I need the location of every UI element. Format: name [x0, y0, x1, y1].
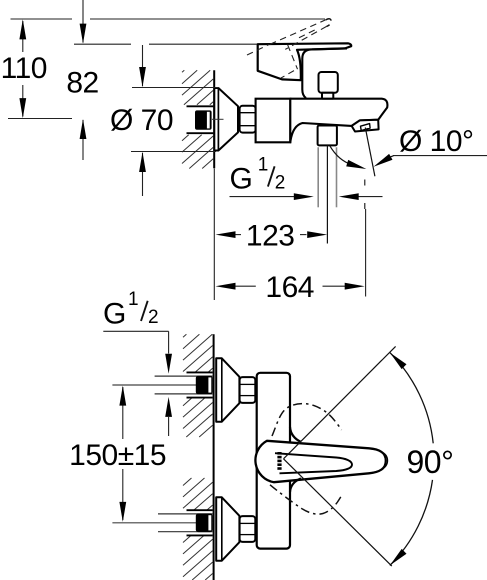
- supply pipe socket in wall (top view): [187, 106, 214, 133]
- wall hatching (bottom view): [183, 334, 213, 580]
- svg-text:150±15: 150±15: [69, 439, 166, 472]
- neck fillet top (body edge to lever): [290, 427, 301, 442]
- hex nut, lower union (bottom view): [240, 516, 256, 542]
- aerator / mousseur at spout end (top view): [352, 120, 379, 132]
- label diameter 10 degrees with leader: [374, 125, 487, 167]
- hose pipe centreline (top view): [326, 146, 328, 244]
- supply pipe socket in wall, lower union (bottom view): [187, 509, 213, 511]
- cartridge dome (top view): [302, 48, 347, 98]
- svg-text:Ø 70: Ø 70: [110, 104, 173, 137]
- faucet connection block (top view): [256, 99, 291, 143]
- svg-text:Ø 10°: Ø 10°: [399, 125, 474, 158]
- svg-text:110: 110: [1, 52, 47, 85]
- arc arrowheads: [390, 353, 407, 370]
- svg-text:164: 164: [265, 271, 314, 304]
- svg-text:G: G: [103, 297, 126, 330]
- hex nut, upper union (bottom view): [240, 377, 256, 403]
- supply pipe outline, upper union: [155, 375, 213, 377]
- supply pipe socket in wall, upper union (bottom view): [187, 371, 213, 373]
- lever handle front view (pointing at viewer): [255, 441, 385, 482]
- hose pipe edge extension lines (top view): [318, 147, 336, 207]
- pipe centreline / 150 extension, upper union: [112, 384, 213, 386]
- union centre tick (top view): [212, 118, 224, 120]
- angle arc from pipe to tilted line (top view): [330, 146, 352, 165]
- pipe fitting (black), upper union: [196, 376, 213, 395]
- dimension 150 plus/minus 15: [69, 386, 166, 522]
- S-union escutcheon cone (top view): [214, 88, 238, 151]
- grip marks on lever (black ticks): [277, 452, 281, 470]
- G 1/2 dimension arrows (bottom view): [165, 331, 172, 436]
- svg-text:90°: 90°: [407, 444, 454, 480]
- dimension 82: [66, 0, 98, 160]
- spout outlet extension line (top view): [365, 209, 367, 297]
- hex nut of S-union (top view): [240, 106, 256, 133]
- raised lever silhouette, dashed upper hump (bottom view): [272, 404, 342, 436]
- extension line y=118.5 (spout axis): [8, 118, 72, 120]
- dimension 123: [216, 220, 328, 253]
- vertical reference dashes below spout (top view): [364, 180, 366, 186]
- escutcheon cone, upper union (bottom view): [216, 358, 239, 421]
- extension line y=19 (top of raised lever): [11, 18, 73, 20]
- lever handle, closed position (top view): [258, 43, 352, 80]
- svg-text:1: 1: [128, 289, 139, 310]
- dimension 110: [1, 19, 47, 118]
- supply pipe outline, lower union: [158, 513, 213, 515]
- lever inner surface outline: [275, 453, 352, 473]
- 90 degree swing arc: [390, 353, 433, 444]
- svg-text:2: 2: [148, 307, 159, 328]
- pipe fitting (black), lower union: [196, 514, 213, 533]
- svg-text:1: 1: [258, 155, 269, 176]
- label G 1/2 (top view) with dimension arrows: [230, 155, 383, 201]
- wall line (top view): [213, 70, 215, 168]
- shower hose connection block (top view): [318, 126, 337, 146]
- dimension 164: [216, 271, 365, 304]
- pipe fitting (black) in wall (top view): [195, 110, 212, 129]
- lever raised position, dashed (top view): [247, 19, 331, 78]
- neck fillet bottom: [290, 478, 301, 492]
- label G 1/2 (bottom view): [103, 289, 169, 331]
- raised lever silhouette, dashed lower hump (bottom view): [270, 485, 343, 514]
- swing range diagonal, lower 45 deg: [284, 459, 392, 566]
- dimension diameter 70: [110, 45, 219, 196]
- wall plane extension line (top view dims): [213, 169, 215, 301]
- wall line (bottom view): [213, 334, 215, 580]
- svg-text:G: G: [230, 163, 253, 196]
- svg-text:82: 82: [66, 66, 98, 99]
- svg-text:123: 123: [246, 220, 295, 253]
- faucet body (bottom view): [257, 373, 290, 549]
- wall hatching (top view): [182, 70, 213, 168]
- pipe centreline / 150 extension, lower union: [112, 522, 213, 524]
- extension line y=44 (top of lever): [74, 43, 131, 45]
- spray angle tilted line (top view): [365, 128, 375, 177]
- escutcheon cone, lower union (bottom view): [216, 497, 239, 560]
- swing range diagonal, upper 45 deg: [284, 346, 396, 458]
- diverter knob (top view): [319, 72, 338, 99]
- svg-text:2: 2: [275, 172, 286, 193]
- spout body outline (top view): [290, 99, 387, 143]
- lever tip thin crescent: [371, 449, 388, 473]
